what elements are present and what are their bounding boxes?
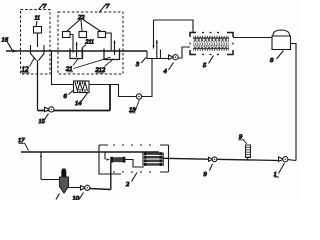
HX box 2 dots (113, 145, 151, 172)
label 8 (270, 51, 284, 65)
label 6 (64, 91, 74, 101)
label 19 (204, 164, 213, 178)
cylinder label leader (56, 194, 60, 200)
column 3 stub short (160, 50, 162, 59)
cell 212 riser (114, 40, 116, 55)
svg-text:5: 5 (203, 62, 207, 69)
HX feed step (104, 152, 106, 160)
label 17 (18, 137, 29, 151)
filter 5 frame dots (190, 33, 233, 55)
label 11 (35, 16, 41, 27)
feeder box 11 (34, 27, 42, 34)
svg-text:6: 6 (64, 93, 68, 100)
hopper stem (37, 61, 39, 111)
label 2 (126, 173, 137, 189)
valve 15 (45, 107, 54, 112)
label 4 (164, 63, 174, 76)
label 12 (22, 58, 35, 74)
cell 21 riser (76, 42, 78, 57)
HX A-B link (125, 160, 144, 168)
feed drop line (37, 33, 39, 47)
label 7 (right box) (99, 3, 110, 13)
svg-text:2: 2 (126, 181, 130, 188)
svg-text:8: 8 (270, 57, 274, 64)
tank outlet (291, 44, 297, 161)
label 7 (left box) (39, 3, 48, 10)
valve 10 outlet (89, 162, 110, 189)
cell 212 tank (104, 49, 120, 60)
valve 10 (81, 185, 90, 190)
flowmeter 9 (246, 145, 251, 161)
valve 4 outlet (178, 47, 190, 58)
dashed box 7 right (58, 12, 123, 74)
column 3 stub up (156, 40, 158, 59)
label 1 (274, 163, 285, 178)
cell 21 electrode (81, 48, 83, 58)
dosing box 22b (79, 32, 87, 38)
filter 5 media (193, 36, 229, 51)
svg-text:3: 3 (135, 61, 140, 68)
HX coil B (143, 152, 163, 166)
label 212 (96, 59, 114, 74)
filter 5 frame (190, 33, 233, 55)
svg-text:4: 4 (164, 68, 168, 75)
HX box 2 frame (99, 145, 169, 174)
valve 4 (169, 55, 179, 60)
main process line (6, 50, 147, 52)
riser arrow (40, 152, 42, 180)
valve 13 (136, 94, 141, 99)
feed arrowhead (13, 49, 17, 52)
column 3 stub down (153, 20, 155, 49)
valve 19 (209, 157, 217, 162)
water line (21, 151, 159, 153)
dosing box 22c (98, 32, 106, 38)
label 22 (67, 14, 102, 32)
svg-text:10: 10 (73, 195, 80, 200)
label 15 (39, 114, 49, 126)
cylinder feed (41, 179, 60, 181)
gas cylinder 10 (60, 169, 69, 194)
heater 6 (74, 81, 90, 93)
dashed box 7 left (21, 10, 51, 75)
label 5 (203, 56, 214, 70)
tank 8 (272, 30, 291, 50)
vapor line (154, 20, 194, 33)
label 211 (83, 40, 95, 48)
label 13 (129, 100, 139, 114)
svg-text:211: 211 (86, 40, 95, 46)
main line step (147, 51, 171, 59)
label 14 (75, 93, 88, 107)
svg-text:9: 9 (204, 171, 208, 178)
valve 1 tail (288, 159, 296, 162)
svg-text:12: 12 (22, 66, 30, 74)
junction drop (109, 85, 111, 111)
HX coil A (110, 157, 125, 163)
hopper 12 (31, 45, 45, 61)
drain to heater line (52, 51, 153, 97)
cell 21 tank (70, 49, 83, 59)
slurry return line (38, 110, 111, 112)
cell 212 dip tube (106, 33, 112, 52)
label 3 (135, 58, 146, 69)
label 16 (2, 37, 13, 51)
valve 10 label (73, 193, 84, 203)
cylinder outlet (69, 187, 82, 189)
valve 1 (279, 157, 288, 162)
label 9 (238, 134, 247, 144)
label 21 (66, 57, 111, 72)
dosing box 22a (63, 32, 71, 38)
svg-text:11: 11 (35, 16, 41, 22)
filter 5 media frame (193, 38, 229, 49)
HX feed arrowhead (107, 158, 111, 160)
HX exit line (162, 158, 279, 160)
filtrate line (233, 37, 272, 39)
cell 21 dip tube (70, 35, 73, 53)
